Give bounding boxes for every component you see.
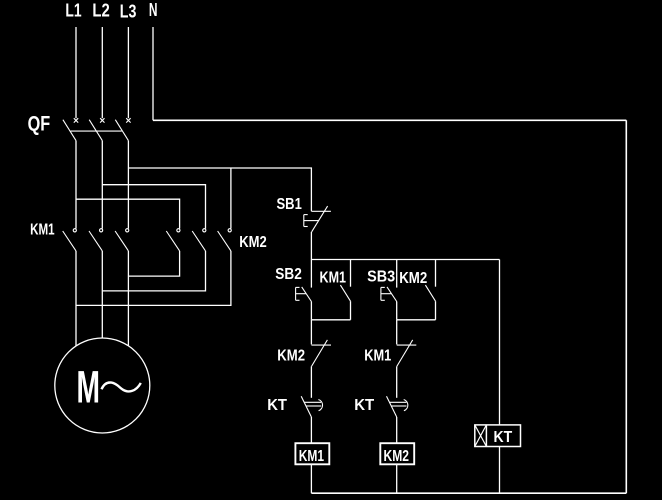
wire N right-side drop	[625, 120, 627, 493]
wire L2 QF to contact 2	[101, 141, 103, 229]
wire L3 incoming	[127, 27, 129, 118]
coil KM1 box	[295, 443, 329, 465]
breaker QF linkage bar	[71, 130, 122, 132]
svg-text:L1: L1	[65, 1, 81, 21]
wire contact 3 down to motor W	[127, 251, 129, 346]
coil KM2 box	[380, 443, 414, 465]
wire L3 branch to control and contact 6	[128, 168, 311, 211]
svg-text:QF: QF	[28, 112, 51, 135]
breaker QF pole 3	[115, 118, 130, 140]
svg-text:KT: KT	[494, 429, 513, 446]
wire contact 2 down to motor V	[101, 251, 103, 338]
motor M circle	[55, 338, 150, 433]
contact KM2 aux (NO, parallel SB3)	[425, 260, 435, 320]
wire L1 branch to contact 4	[76, 199, 180, 228]
svg-text:KT: KT	[267, 397, 287, 414]
wire KT branch drop	[499, 260, 501, 425]
svg-text:SB3: SB3	[367, 269, 395, 286]
wire KT to KM2 coil	[396, 417, 398, 443]
wire control bus horizontal	[311, 259, 499, 261]
pushbutton SB1 (NC)	[304, 206, 331, 232]
contactor KM2 main contact 3	[218, 229, 232, 251]
wire L2 branch to contact 5	[102, 185, 205, 229]
wire L1 QF to contact 1	[75, 141, 77, 229]
svg-text:KM1: KM1	[30, 221, 55, 238]
wire bottom bus	[311, 492, 626, 494]
svg-text:M: M	[77, 362, 101, 413]
pushbutton SB3 (NO)	[381, 260, 397, 302]
svg-text:KM2: KM2	[239, 234, 267, 251]
wire contact 5 to phase V node	[102, 251, 205, 291]
contactor KM1 main contact 1	[63, 229, 77, 251]
contact KM1 aux (NO, parallel SB2)	[340, 260, 350, 320]
wire L2 incoming	[101, 27, 103, 118]
wire KT coil to bottom bus	[499, 447, 501, 494]
wire KM1 NC down	[396, 366, 398, 397]
contactor KM2 main contact 2	[192, 229, 206, 251]
coil KT box with X cell	[475, 425, 521, 447]
wire KM2 coil to bottom bus	[396, 464, 398, 493]
wire N horizontal to right edge	[153, 119, 626, 121]
contactor KM1 main contact 3	[115, 229, 129, 251]
wire SB2 node down	[310, 320, 312, 345]
svg-text:KM2: KM2	[384, 448, 410, 465]
wire branch down to contact 6	[230, 168, 232, 229]
wire join SB3/KM2aux	[397, 319, 436, 321]
svg-text:SB2: SB2	[275, 266, 302, 283]
wire KT to KM1 coil	[310, 417, 312, 443]
wire L3 QF to contact 3	[127, 141, 129, 229]
wire SB2 lower	[310, 302, 312, 320]
motor tilde	[102, 382, 141, 391]
pushbutton SB2 (NO)	[296, 260, 312, 302]
svg-text:KT: KT	[354, 397, 374, 414]
svg-text:KM1: KM1	[364, 347, 391, 364]
wire SB3 lower	[396, 302, 398, 320]
contactor KM2 main contact 1	[166, 229, 180, 251]
svg-text:KM1: KM1	[299, 448, 324, 465]
svg-text:N: N	[149, 0, 158, 20]
timer contact KT (right branch)	[387, 396, 408, 417]
svg-text:KM2: KM2	[399, 270, 427, 287]
contact KM1 interlock (NC)	[397, 340, 417, 367]
wire contact 4 to phase W node	[128, 251, 179, 276]
contactor KM1 main contact 2	[89, 229, 103, 251]
wire KM2 NC down	[310, 366, 312, 397]
wire KM1 coil to bottom bus	[310, 464, 312, 493]
svg-text:KM1: KM1	[320, 270, 347, 287]
wire SB3 node down	[396, 320, 398, 345]
svg-text:L3: L3	[120, 1, 137, 21]
wire N incoming	[152, 27, 154, 120]
wire contact 1 down to motor U	[75, 251, 77, 346]
svg-text:L2: L2	[92, 1, 109, 21]
wire SB1 to control bus node	[310, 232, 312, 260]
timer contact KT (left branch)	[301, 396, 322, 417]
wire join SB2/KM1aux	[311, 319, 350, 321]
wire contact 6 to phase U node	[76, 251, 231, 306]
breaker QF pole 1	[63, 118, 78, 140]
breaker QF pole 2	[89, 118, 104, 140]
svg-text:KM2: KM2	[277, 347, 305, 364]
wire L1 incoming	[75, 27, 77, 118]
svg-text:SB1: SB1	[277, 196, 302, 213]
contact KM2 interlock (NC)	[311, 340, 331, 367]
